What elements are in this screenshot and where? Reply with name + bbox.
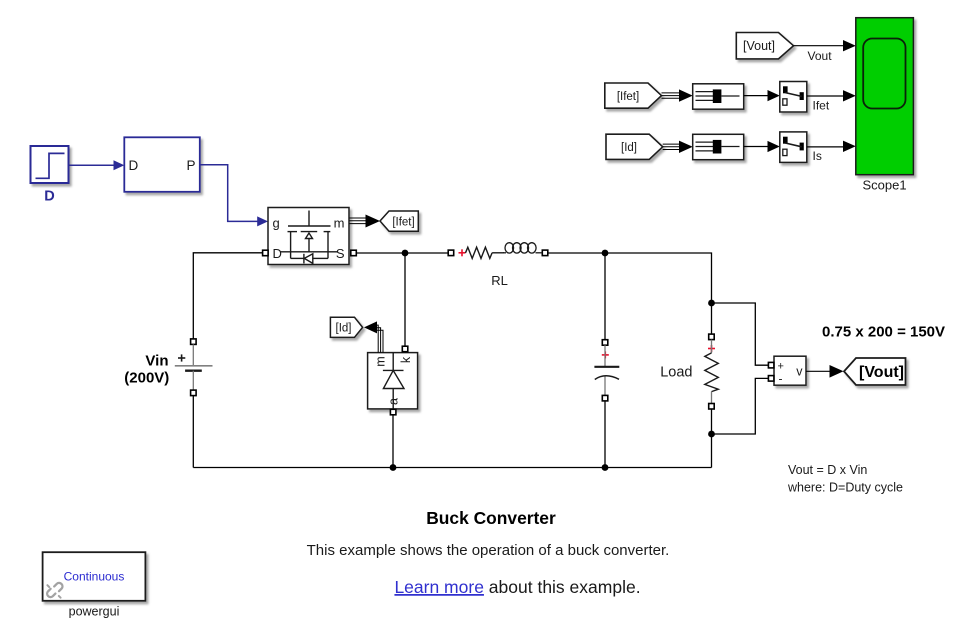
- svg-text:[Id]: [Id]: [621, 142, 637, 154]
- svg-text:D: D: [129, 158, 139, 173]
- svg-text:Ifet: Ifet: [813, 99, 830, 113]
- port square S: [351, 250, 357, 256]
- svg-text:Vout = D x Vin: Vout = D x Vin: [788, 463, 867, 477]
- wire Vin to bottom rail: [192, 396, 194, 468]
- node load bottom branch: [708, 431, 715, 438]
- series RL block: [448, 243, 548, 288]
- wire diode bottom to rail: [392, 415, 394, 468]
- svg-text:m: m: [374, 356, 388, 366]
- svg-text:Is: Is: [813, 149, 822, 163]
- wire S to RL: [356, 252, 448, 254]
- svg-text:D: D: [44, 189, 54, 205]
- svg-text:Continuous: Continuous: [64, 570, 125, 584]
- Vin source: [124, 339, 212, 396]
- node diode bottom: [390, 464, 397, 471]
- node load top branch: [708, 300, 715, 307]
- svg-text:g: g: [273, 216, 280, 231]
- voltage measurement block V: [768, 356, 806, 385]
- svg-text:[Ifet]: [Ifet]: [617, 91, 639, 103]
- node capacitor top: [602, 250, 609, 257]
- wire capacitor to bottom rail: [604, 401, 606, 468]
- broken link icon: [47, 583, 62, 598]
- scope block Scope1: [856, 18, 914, 175]
- svg-text:Load: Load: [660, 365, 692, 381]
- selector block 2: [693, 134, 744, 159]
- wire Vout to scope: [794, 40, 856, 51]
- from tag [Vout]: [736, 33, 793, 59]
- resistor zigzag: [466, 247, 493, 258]
- svg-text:D: D: [273, 246, 282, 261]
- svg-text:RL: RL: [491, 273, 508, 288]
- measurement line m to Ifet goto: [350, 215, 381, 228]
- subsystem duty cycle: [124, 137, 200, 192]
- wire node down to capacitor: [604, 253, 606, 340]
- svg-text:Vin: Vin: [145, 353, 168, 370]
- red plus RL: [459, 249, 466, 256]
- wire load branch: [711, 303, 713, 334]
- from tag [Id]: [606, 134, 663, 159]
- svg-text:where: D=Duty cycle: where: D=Duty cycle: [787, 480, 903, 494]
- mosfet block Q1: [263, 208, 357, 265]
- measurement wire Ifet to selector1: [662, 89, 693, 101]
- svg-text:Buck Converter: Buck Converter: [426, 508, 556, 528]
- wire selector1 to switch1: [744, 90, 780, 101]
- measurement wire Id to selector2: [663, 141, 693, 153]
- selector block 1: [693, 84, 744, 109]
- svg-text:This example shows the operati: This example shows the operation of a bu…: [307, 542, 670, 559]
- wire load bottom to V minus: [712, 378, 769, 434]
- goto tag [Vout]: [844, 358, 906, 385]
- wire switch1 to scope: [807, 90, 856, 101]
- measurement line diode m to Id goto: [364, 321, 383, 352]
- wire subsystem P to mosfet g: [200, 165, 268, 227]
- step source D: [31, 146, 69, 183]
- svg-text:Scope1: Scope1: [862, 178, 906, 193]
- svg-text:m: m: [334, 216, 345, 231]
- svg-text:S: S: [336, 246, 345, 261]
- capacitor C: [594, 340, 619, 401]
- manual switch 2: [780, 132, 807, 163]
- manual switch 1: [780, 82, 807, 113]
- svg-text:Vout: Vout: [808, 49, 833, 63]
- node capacitor bottom: [602, 464, 609, 471]
- svg-text:(200V): (200V): [124, 369, 169, 386]
- svg-text:P: P: [186, 158, 195, 173]
- mosfet icon: [280, 211, 338, 264]
- svg-text:[Id]: [Id]: [336, 323, 352, 335]
- inductor loops: [503, 243, 542, 253]
- powergui block: [43, 552, 146, 601]
- svg-text:powergui: powergui: [69, 605, 120, 619]
- SECTION: power circuit: [124, 208, 905, 471]
- load resistor: [660, 334, 718, 409]
- left rail top wire D port: [193, 253, 262, 339]
- svg-text:0.75 x 200 = 150V: 0.75 x 200 = 150V: [822, 323, 945, 340]
- from tag [Ifet]: [605, 83, 662, 108]
- diode block: [368, 346, 418, 415]
- wire load to bottom: [711, 409, 713, 468]
- svg-text:k: k: [399, 356, 413, 363]
- svg-text:[Vout]: [Vout]: [743, 39, 775, 53]
- SECTION: scope group top-right: [605, 18, 914, 193]
- wire selector2 to switch2: [744, 141, 780, 152]
- wire V out to Vout goto: [806, 365, 844, 378]
- port square D: [263, 250, 269, 256]
- node S-diode: [402, 250, 409, 257]
- wire load top to V plus: [712, 303, 769, 365]
- SECTION: annotations: [43, 323, 945, 618]
- svg-text:Learn more about this example.: Learn more about this example.: [394, 577, 640, 597]
- svg-text:[Vout]: [Vout]: [859, 364, 904, 381]
- wire switch2 to scope: [807, 141, 856, 152]
- bottom rail: [193, 467, 711, 469]
- goto tag [Id]: [330, 317, 362, 337]
- wire node down to diode: [404, 253, 406, 347]
- wire RL to load corner: [548, 253, 712, 303]
- goto tag [Ifet]: [380, 211, 418, 231]
- wire step to subsystem: [69, 160, 125, 170]
- svg-text:-: -: [779, 372, 783, 386]
- svg-text:[Ifet]: [Ifet]: [392, 217, 414, 229]
- svg-text:v: v: [796, 365, 803, 379]
- SECTION: control loop top-left: [31, 137, 269, 226]
